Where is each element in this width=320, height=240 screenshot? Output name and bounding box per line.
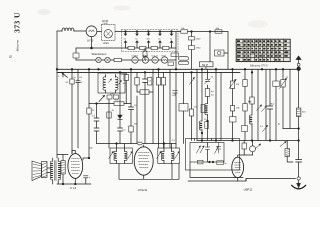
table cell digits — [237, 40, 288, 60]
wire bottom under tube3 — [188, 179, 246, 182]
T4 secondary winding — [58, 161, 60, 180]
wire drop x78 — [77, 69, 79, 148]
wire drop x245 resistors — [244, 69, 246, 140]
resistor R11 on h wire — [114, 102, 124, 106]
variable cap box with circle — [215, 50, 225, 56]
svg-text:70: 70 — [134, 105, 137, 107]
electrolytic C8 50u — [70, 79, 74, 84]
detector trim arrow 1 — [197, 146, 201, 153]
T4 primary winding — [50, 161, 52, 180]
T2 winding 1 — [114, 151, 117, 160]
wire tube3 to jack — [246, 179, 296, 182]
wire right end of filter — [175, 32, 177, 70]
wire drop x163.5 with resistor — [163, 72, 165, 148]
svg-text:0,1: 0,1 — [260, 126, 264, 128]
detector vertical cap — [216, 143, 220, 154]
wire tube3 bottom — [237, 178, 239, 181]
box R21 — [230, 117, 237, 123]
svg-text:1M: 1M — [236, 84, 239, 86]
capacitor C17 — [267, 106, 272, 109]
wire drop x176 below bus — [175, 72, 177, 148]
pot arrow across R19 — [229, 80, 236, 89]
potentiometer P1 — [281, 80, 285, 88]
bus junction dots — [56, 69, 284, 74]
svg-text:5000: 5000 — [110, 93, 116, 95]
heater UCL11 — [152, 57, 158, 63]
detector bottom box 2 — [217, 161, 224, 165]
svg-text:20k: 20k — [248, 101, 252, 103]
resistor R16 — [156, 78, 160, 86]
resistor beside L2 — [205, 122, 209, 129]
wire left rail — [56, 31, 58, 158]
heater UY11 — [161, 57, 167, 63]
wire drop x270 — [269, 69, 271, 140]
electrolytic C16 — [205, 89, 210, 97]
dashed box voltage dropper section — [122, 30, 179, 52]
detector bottom box 1 — [198, 160, 204, 164]
svg-text:+: + — [89, 176, 91, 179]
wire tube3 top — [238, 155, 253, 157]
svg-text:5k: 5k — [211, 77, 214, 79]
svg-text:50: 50 — [66, 82, 69, 84]
T3 arrows — [157, 152, 162, 159]
resistor R10 — [124, 75, 129, 81]
wire drop x276 — [275, 69, 277, 140]
heater UCH11 — [132, 57, 138, 63]
svg-text:Minerva 373 U: Minerva 373 U — [249, 63, 269, 67]
switch box 52P mains — [200, 62, 214, 67]
svg-text:0,1: 0,1 — [271, 103, 275, 105]
tube3 anode cluster circle — [250, 146, 256, 152]
svg-text:50: 50 — [124, 39, 126, 41]
wire bottom rail mid — [119, 164, 179, 180]
lamp La1 — [96, 57, 101, 62]
ground symbol — [297, 183, 301, 188]
oscillator coil L2 — [199, 121, 202, 130]
svg-text:UY 3: UY 3 — [87, 38, 94, 42]
wire tube1 top — [72, 151, 75, 154]
capacitor C15 trim — [205, 80, 210, 82]
IF transformer T3 box — [158, 148, 180, 164]
tube UCL11 electrodes — [71, 159, 80, 174]
capacitor C10 — [94, 118, 99, 121]
bus rail lower — [57, 71, 240, 73]
inductor L1 mains choke — [62, 28, 74, 31]
svg-text:b: b — [81, 82, 83, 84]
resistor R29 field coil — [61, 161, 65, 175]
wire bend right of top rail — [224, 32, 228, 70]
antenna symbol — [296, 56, 301, 60]
wire drop x109 — [108, 99, 110, 148]
svg-text:0,1: 0,1 — [92, 116, 96, 118]
wire top rail — [115, 31, 228, 33]
wire drop x197 — [196, 69, 198, 140]
capacitor C14 small — [173, 91, 178, 97]
svg-text:2n: 2n — [73, 77, 76, 79]
svg-text:U 13: U 13 — [70, 186, 76, 190]
junction dots top rail — [125, 31, 127, 33]
IF transformer T2 box — [110, 148, 132, 164]
ballast Urdox dashed box — [102, 25, 116, 41]
wire heater row — [76, 59, 176, 61]
paper stain 2 — [113, 6, 131, 11]
rectifier tube UY11 — [86, 26, 97, 37]
resistor 10k on top rail — [181, 30, 188, 33]
svg-text:UY11: UY11 — [161, 56, 167, 58]
svg-text:2k: 2k — [112, 110, 115, 112]
resistor row R2 — [128, 47, 135, 50]
fuse capsule 2 — [179, 61, 189, 64]
diode arrow mid — [190, 78, 195, 85]
wire x89 to tube1 area — [83, 155, 89, 160]
capacitor C19 above tube2 — [138, 142, 142, 145]
svg-text:50k: 50k — [115, 100, 119, 102]
svg-text:52 P: 52 P — [202, 63, 208, 67]
capacitor C12 — [118, 128, 123, 131]
svg-text:0,1: 0,1 — [148, 81, 152, 83]
wire drop x153 — [152, 69, 154, 143]
wire h143.5 left — [97, 143, 177, 145]
wire heater return under tube — [76, 37, 128, 48]
wire drop at 210 — [206, 32, 210, 70]
svg-text:4700: 4700 — [196, 39, 202, 41]
svg-text:1k: 1k — [92, 110, 95, 112]
wire drop x72 — [71, 69, 73, 153]
svg-text:G: G — [172, 95, 174, 97]
wire bottom right rail — [197, 140, 299, 142]
fuse capsule 1 — [179, 57, 189, 60]
svg-text:25: 25 — [286, 77, 289, 79]
svg-text:a: a — [58, 76, 60, 78]
box WC — [179, 104, 188, 112]
wire mains top left — [57, 30, 86, 32]
T3 winding 2 — [172, 151, 175, 160]
trimmer capacitor C4 — [158, 32, 162, 47]
resistor R28 — [285, 149, 290, 157]
wire h 128.5 — [283, 128, 299, 130]
svg-text:0,5: 0,5 — [79, 77, 83, 79]
T1 secondary winding — [116, 77, 119, 90]
svg-text:10k: 10k — [181, 28, 185, 30]
svg-text:0,1: 0,1 — [123, 129, 127, 131]
T2 winding 2 — [125, 151, 128, 160]
trim arrows pair — [257, 105, 262, 111]
tube UBF11 electrodes — [235, 163, 242, 173]
svg-text:300: 300 — [302, 112, 306, 114]
speaker magnet — [42, 162, 48, 178]
pot wiper arrow left — [57, 72, 63, 77]
voltage table — [236, 39, 290, 61]
capacitor C13 — [143, 79, 148, 83]
junction dots osc — [201, 132, 203, 134]
tube UCH11 electrodes — [139, 153, 150, 168]
wire h 103.5 — [89, 103, 131, 105]
svg-text:50: 50 — [135, 39, 137, 41]
svg-text:150: 150 — [147, 39, 150, 41]
svg-text:50: 50 — [158, 39, 160, 41]
stacked box R7 — [171, 53, 179, 57]
svg-text:(J=0): (J=0) — [103, 23, 108, 25]
detector rail stubs — [195, 139, 212, 141]
wire tube1 bottom — [74, 178, 76, 184]
tube UCH11 envelope — [134, 147, 153, 175]
boxes under T1 — [107, 95, 112, 99]
capacitor block C6 — [189, 37, 195, 41]
tube3 anode cluster resistor — [242, 143, 247, 149]
speaker cone — [32, 161, 42, 181]
wire drop x131 — [130, 69, 132, 143]
capacitor C20 — [84, 176, 89, 178]
wire drop x137 — [136, 72, 138, 143]
trim arrow low — [263, 126, 268, 132]
tube UCL11 envelope — [68, 154, 83, 179]
resistor R20 — [230, 106, 234, 112]
svg-text:UBF11: UBF11 — [244, 188, 253, 192]
wire h154.5 left — [57, 154, 68, 156]
svg-text:UCL11: UCL11 — [152, 56, 159, 58]
resistor R12 — [107, 112, 111, 118]
capacitor C11 — [94, 128, 99, 131]
wire detector lower links — [190, 162, 243, 178]
resistor row R3 — [140, 47, 147, 50]
svg-text:Skalenlampen: Skalenlampen — [92, 54, 107, 56]
svg-text:100: 100 — [89, 148, 93, 150]
bus rail upper — [57, 68, 299, 70]
capacitor C18 — [296, 160, 302, 163]
svg-text:4700: 4700 — [196, 48, 202, 50]
paper stain 3 — [248, 20, 268, 28]
tube UBF11 envelope — [232, 157, 244, 177]
resistor R9 — [87, 108, 91, 114]
svg-text:4n: 4n — [224, 163, 227, 165]
resistor R15 mid — [140, 90, 149, 94]
svg-text:Minerva: Minerva — [16, 40, 20, 53]
wire drop x145 — [144, 72, 146, 143]
fuse Si — [75, 48, 77, 60]
output transformer T4 core — [55, 161, 56, 181]
svg-text:∅: ∅ — [9, 55, 12, 59]
wire drop x283 potentiometer — [282, 69, 284, 128]
svg-text:700: 700 — [134, 124, 138, 126]
svg-text:UCH11: UCH11 — [132, 56, 139, 58]
wire drop x216 — [215, 69, 217, 140]
wire drop x120 diode branch — [119, 72, 121, 143]
wire drop x96.5 — [96, 104, 98, 144]
T1 tuning arrow below — [99, 96, 105, 102]
coil L4 — [249, 115, 252, 124]
stacked box R8 — [168, 62, 174, 66]
wire drop x266 — [265, 69, 267, 140]
svg-text:4µ: 4µ — [211, 91, 214, 93]
trimmer capacitor C2 — [135, 32, 139, 47]
resistor beside L3 — [201, 105, 205, 113]
wire bottom rail left — [57, 183, 91, 185]
jack circle — [297, 177, 300, 180]
resistor R heater series — [114, 58, 122, 61]
resistor R13 — [129, 126, 133, 132]
wire drop x252 chain — [251, 69, 253, 140]
T2 arrows — [109, 152, 114, 159]
svg-text:UCH11: UCH11 — [138, 188, 148, 192]
resistor R27 hatched — [296, 108, 301, 117]
antenna ground column — [298, 71, 300, 184]
svg-text:70: 70 — [170, 39, 172, 41]
T3 winding 1 — [161, 151, 164, 160]
capacitor C9 — [76, 80, 80, 85]
wire tube2 bottom — [143, 175, 145, 179]
IF transformer T1 box — [98, 73, 125, 93]
box R26 — [273, 81, 280, 87]
diode D1 — [118, 115, 123, 119]
wire drop x158.5 with resistor — [158, 69, 160, 148]
IFT top stubs — [117, 144, 172, 149]
svg-text:373 U: 373 U — [13, 12, 22, 33]
wire drop x202 — [201, 69, 203, 140]
resistor R22 — [243, 80, 247, 87]
wire resistor row — [126, 46, 177, 48]
detector loop outer — [186, 139, 240, 171]
resistor R6 drop — [143, 51, 147, 57]
wire tube to ballast — [86, 30, 102, 33]
tube3 cluster arrow — [256, 144, 261, 149]
detector trim arrow 2 — [200, 146, 204, 153]
svg-text:S: S — [278, 123, 280, 126]
detector loop inner — [190, 143, 224, 163]
resistor R17 — [161, 78, 165, 86]
svg-text:Urdox: Urdox — [103, 42, 110, 45]
detector junction dots — [209, 161, 211, 163]
wire drop x290 — [289, 69, 291, 128]
T4 connection wires — [47, 158, 58, 184]
component box 100 on rail — [215, 30, 222, 33]
detector diode arrow — [215, 147, 219, 154]
oscillator coil L3 — [205, 103, 208, 114]
resistor R23 — [243, 104, 247, 112]
paper stain 1 — [37, 9, 51, 15]
capacitor block C7 — [189, 46, 195, 50]
wire drop at 191 — [191, 32, 193, 70]
T1 trim arrows — [109, 79, 112, 83]
wire drop x170 — [169, 69, 171, 148]
Urdox resistor bulb — [104, 30, 112, 38]
trimmer capacitor C1 — [124, 32, 128, 47]
wire drop x232.5 resistors — [232, 69, 234, 140]
svg-text:50k: 50k — [236, 108, 240, 110]
detector cap branch — [207, 143, 209, 163]
resistor row R4 — [151, 47, 158, 50]
wire drop x258 — [257, 69, 259, 140]
svg-text:1M: 1M — [194, 107, 197, 109]
svg-text:50: 50 — [211, 95, 214, 97]
lamp La2 — [105, 57, 110, 62]
resistor R18 — [189, 109, 193, 116]
svg-text:0,2: 0,2 — [172, 140, 176, 142]
wire drop x89 — [88, 69, 90, 155]
resistor R25 — [250, 97, 254, 104]
trimmer capacitor C5 — [170, 32, 174, 47]
heater UBF11 — [142, 57, 148, 63]
T1 primary winding — [103, 77, 106, 90]
wire drop x221 — [220, 72, 222, 140]
resistor extra band — [148, 78, 152, 86]
trimmer capacitor C3 — [147, 32, 151, 47]
resistor R19 — [230, 81, 234, 89]
resistor R14 — [135, 78, 139, 86]
switch arrow right — [280, 142, 286, 147]
resistor row R5 — [163, 47, 170, 50]
wire drop x207 — [207, 69, 209, 140]
box R24 — [242, 126, 248, 132]
